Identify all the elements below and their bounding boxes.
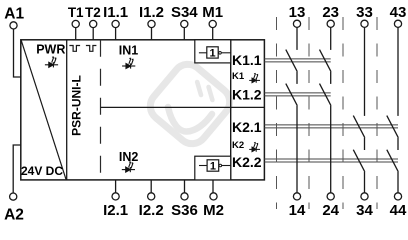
svg-text:K1.1: K1.1 xyxy=(232,52,262,68)
terminal M2 xyxy=(212,180,214,193)
svg-text:43: 43 xyxy=(390,4,407,21)
watermark phoenix plug logo xyxy=(144,58,236,150)
contact K1.2 col23 xyxy=(330,72,332,84)
svg-text:I1.1: I1.1 xyxy=(103,4,128,21)
svg-text:K2.1: K2.1 xyxy=(232,119,262,135)
svg-text:23: 23 xyxy=(322,4,339,21)
svg-text:PWR: PWR xyxy=(36,43,65,57)
svg-text:K2.2: K2.2 xyxy=(232,154,262,170)
svg-text:K1: K1 xyxy=(232,71,245,82)
svg-text:I1.2: I1.2 xyxy=(139,4,164,21)
contact K1.2 col13 xyxy=(296,72,298,84)
power supply diagonal xyxy=(21,40,66,179)
contact K2.1 col33 xyxy=(353,116,365,138)
contact K2.1 col43 xyxy=(387,116,399,138)
svg-text:T2: T2 xyxy=(85,5,101,20)
wire 23-24 lower xyxy=(330,106,332,193)
terminal A2 xyxy=(10,193,17,200)
contact K2.2 col43 xyxy=(387,150,399,172)
main module box xyxy=(21,40,265,180)
terminal I2.1 xyxy=(115,180,117,193)
svg-text:K2: K2 xyxy=(232,140,244,151)
svg-text:24: 24 xyxy=(322,202,339,219)
contact K1.1 col13 xyxy=(296,27,298,50)
pulse symbol T2 xyxy=(86,46,97,52)
contact K2.2 col33 xyxy=(353,150,365,172)
svg-text:IN1: IN1 xyxy=(119,44,139,58)
LED K2 xyxy=(249,142,260,152)
wire 33 upper xyxy=(364,27,366,116)
pulse symbol T1 xyxy=(69,46,80,52)
wire 43 upper xyxy=(397,27,399,116)
dashed column separators xyxy=(276,17,278,209)
LED IN2 xyxy=(122,161,135,172)
dashed section divider xyxy=(100,40,102,180)
pulse generator box M1 xyxy=(195,40,231,63)
svg-text:44: 44 xyxy=(390,202,407,219)
svg-text:A2: A2 xyxy=(4,206,24,223)
svg-text:1: 1 xyxy=(210,161,216,173)
linkage K1.1 xyxy=(264,58,330,60)
linkage K2.2 xyxy=(264,158,398,160)
svg-text:T1: T1 xyxy=(68,5,84,20)
svg-text:13: 13 xyxy=(289,4,306,21)
terminal S36 xyxy=(184,180,186,193)
svg-text:24V DC: 24V DC xyxy=(21,164,63,178)
svg-text:S34: S34 xyxy=(171,4,198,21)
LED PWR xyxy=(45,56,58,67)
svg-text:33: 33 xyxy=(356,4,373,21)
LED IN1 xyxy=(122,58,135,69)
wire 13-14 lower xyxy=(296,106,298,193)
svg-text:IN2: IN2 xyxy=(119,150,139,164)
svg-text:1: 1 xyxy=(209,48,215,60)
main box right edge xyxy=(230,40,232,180)
LED K1 xyxy=(249,73,260,83)
svg-text:I2.1: I2.1 xyxy=(103,202,128,219)
svg-text:14: 14 xyxy=(289,202,306,219)
linkage K1.2 xyxy=(264,92,330,94)
divider PWR section xyxy=(66,40,68,180)
horizontal divider IN1/IN2 xyxy=(101,106,265,108)
contact K1.1 col23 xyxy=(330,27,332,50)
svg-text:I2.2: I2.2 xyxy=(139,202,164,219)
svg-text:PSR-UNI-L: PSR-UNI-L xyxy=(69,75,83,136)
svg-text:A1: A1 xyxy=(4,6,24,23)
svg-text:M2: M2 xyxy=(203,202,224,219)
linkage K2.1 xyxy=(264,124,398,126)
svg-text:K1.2: K1.2 xyxy=(232,86,262,102)
svg-text:S36: S36 xyxy=(171,202,198,219)
svg-text:34: 34 xyxy=(356,202,373,219)
terminal I2.2 xyxy=(150,180,152,193)
wire A1 xyxy=(14,29,21,77)
wire A2 xyxy=(13,145,21,193)
svg-text:M1: M1 xyxy=(202,4,223,21)
pulse generator box M2 xyxy=(195,156,231,180)
